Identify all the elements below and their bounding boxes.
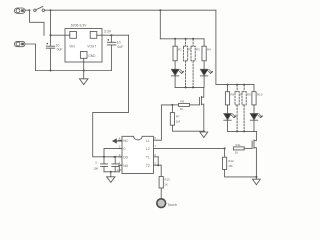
wire VIN node to regulator <box>51 34 66 36</box>
junction dots right top bus <box>227 84 229 86</box>
svg-text:L1: L1 <box>146 139 150 143</box>
no-connect arrow on pin 1 <box>112 138 122 143</box>
junction C3 top <box>103 156 105 158</box>
junction T1/T2 <box>157 164 159 166</box>
svg-text:R3: R3 <box>196 47 200 51</box>
left LED group top bus <box>160 38 204 40</box>
wire 3.3V to VDD of U2 <box>93 35 129 157</box>
LED D3 <box>224 114 237 132</box>
wire J2 to ground bus <box>25 44 36 71</box>
wire pin4 to ground node <box>119 165 122 172</box>
resistor R8 (dashed optional) <box>235 85 239 132</box>
svg-text:R9: R9 <box>247 93 251 97</box>
junction C1 to ground bus <box>50 70 52 72</box>
ground symbol (Q2) <box>253 179 261 185</box>
resistor R7 1M (gate pulldown Q1) <box>170 105 204 131</box>
wire VOUT 3.3V rail <box>102 34 129 36</box>
transistor Q2 NMOS <box>252 131 256 179</box>
right LED group top bus <box>216 84 254 86</box>
node VIN junction <box>50 34 52 36</box>
svg-text:R5: R5 <box>230 93 234 97</box>
svg-text:ND: ND <box>123 164 128 168</box>
svg-text:DD: DD <box>123 156 128 160</box>
wire pin6 T1 down <box>157 157 159 165</box>
ground symbol (Q1) <box>200 132 208 138</box>
junction ground node <box>110 171 112 173</box>
svg-text:T2: T2 <box>146 164 150 168</box>
svg-text:R10: R10 <box>257 93 263 97</box>
IC U2 touch LED driver <box>119 136 162 173</box>
touch pad TP1 <box>157 199 166 208</box>
node gate2 junction <box>224 147 226 149</box>
node B junction <box>50 9 52 11</box>
svg-text:DI: DI <box>113 155 116 159</box>
wire node C down to left LED bus <box>159 10 161 39</box>
node A junction <box>29 9 31 11</box>
transistor Q1 NMOS <box>199 87 203 131</box>
junction dots left top bus <box>174 38 176 40</box>
svg-text:R7: R7 <box>176 115 180 119</box>
svg-text:GND: GND <box>88 54 96 58</box>
wire stub from node A down-right (dangling) <box>30 10 45 35</box>
svg-text:VIN: VIN <box>69 45 75 49</box>
ground symbol (U2) <box>107 172 115 183</box>
svg-text:T1: T1 <box>146 156 150 160</box>
LED D4 <box>250 114 263 132</box>
wire right branch down to right LED bus <box>215 10 217 84</box>
right LED group bottom bus <box>228 130 257 132</box>
svg-text:0uF: 0uF <box>117 45 123 49</box>
svg-text:1K: 1K <box>180 107 184 111</box>
resistor R11 1K (gate Q2) <box>233 147 252 150</box>
resistor R6 1K (gate Q1) <box>172 103 199 106</box>
junction Q1 source / ground <box>203 130 205 132</box>
resistor R5 <box>225 85 229 114</box>
svg-text:6206-3.3V: 6206-3.3V <box>71 23 87 27</box>
svg-text:R11: R11 <box>235 143 241 147</box>
LED D1 <box>171 69 184 87</box>
regulator U1 6206-3.3V <box>65 29 102 63</box>
svg-text:1M: 1M <box>176 120 181 124</box>
wire top rail to LED branch node <box>51 9 161 11</box>
svg-text:R12: R12 <box>228 159 234 163</box>
svg-text:R6: R6 <box>180 100 184 104</box>
junction Q2 source / pulldown <box>255 176 257 178</box>
junction dots left bottom bus <box>185 86 187 88</box>
svg-text:Touch: Touch <box>167 203 177 207</box>
ground symbol (regulator) <box>79 79 88 85</box>
junction dots right bottom bus <box>236 130 238 132</box>
wire node B down to VIN node <box>50 10 52 46</box>
svg-text:VOUT: VOUT <box>87 45 96 49</box>
capacitor C3 104 <box>101 157 108 172</box>
wire top rail to right LED branch <box>160 9 216 11</box>
resistor R3 (dashed optional) <box>191 39 195 88</box>
wire regulator GND pin down <box>83 62 85 79</box>
connector J1 (battery input +) <box>15 8 26 13</box>
LED D2 <box>200 69 213 87</box>
wire J1 to node A <box>25 9 30 11</box>
switch S1 <box>34 7 45 12</box>
connector J2 (battery input -) <box>15 41 26 46</box>
node C junction (left LED branch) <box>159 9 161 11</box>
wire pin8 L1 up to gate node <box>157 105 172 140</box>
left LED group bottom bus <box>175 86 204 88</box>
wire switch to node B <box>45 9 51 11</box>
resistor R12 1M (gate pulldown Q2) <box>223 148 257 177</box>
wire pin7 L2 to gate node 2 <box>157 147 225 149</box>
node VOUT junction <box>110 34 112 36</box>
svg-text:10K: 10K <box>93 167 98 171</box>
svg-text:R13: R13 <box>164 178 170 182</box>
svg-text:0uF: 0uF <box>57 48 63 52</box>
capacitor C4 1uF <box>112 157 119 172</box>
resistor R13 (touch) <box>159 177 163 199</box>
ground bus wire <box>36 70 112 72</box>
svg-text:R4: R4 <box>207 47 211 51</box>
svg-text:R1: R1 <box>178 47 182 51</box>
resistor R9 (dashed optional) <box>242 85 246 132</box>
svg-text:L2: L2 <box>146 147 150 151</box>
svg-text:3.3V: 3.3V <box>104 29 112 33</box>
svg-text:1K: 1K <box>164 183 168 187</box>
junction C4 top <box>114 156 116 158</box>
junction regulator GND to ground bus <box>83 70 85 72</box>
resistor R4 <box>202 39 206 70</box>
resistor R1 <box>173 39 177 70</box>
wire T pins to touch resistor <box>160 165 162 176</box>
wire pin2 to VDD bus <box>104 148 122 156</box>
svg-text:1M: 1M <box>228 164 233 168</box>
svg-text:1K: 1K <box>235 151 239 155</box>
capacitor C2 10uF (output) <box>107 35 116 70</box>
capacitor C1 10uF (input) <box>46 43 54 71</box>
svg-text:NC: NC <box>123 139 128 143</box>
wire caps to ground node <box>104 171 119 173</box>
resistor R10 <box>252 85 256 114</box>
resistor R2 (dashed optional) <box>184 39 188 88</box>
node gate1 junction <box>171 104 173 106</box>
